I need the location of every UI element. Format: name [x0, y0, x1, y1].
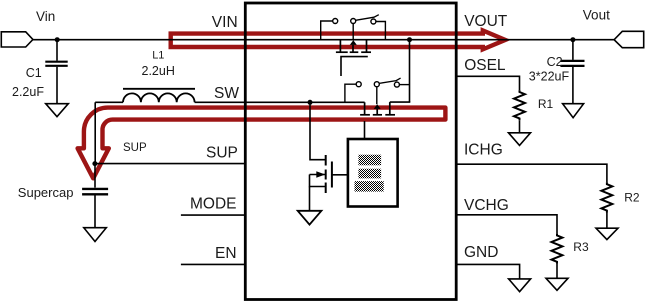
svg-text:3*22uF: 3*22uF: [529, 69, 570, 83]
svg-text:Vout: Vout: [583, 7, 610, 22]
svg-text:SUP: SUP: [123, 142, 147, 154]
svg-text:MODE: MODE: [190, 195, 237, 212]
svg-text:GND: GND: [464, 244, 498, 261]
svg-text:2.2uH: 2.2uH: [142, 64, 175, 78]
svg-text:SUP: SUP: [206, 145, 238, 162]
svg-text:ICHG: ICHG: [464, 141, 503, 158]
svg-text:R3: R3: [573, 240, 589, 254]
svg-text:L1: L1: [152, 50, 164, 62]
svg-text:R2: R2: [624, 191, 640, 205]
svg-text:OSEL: OSEL: [464, 57, 506, 74]
svg-text:2.2uF: 2.2uF: [12, 85, 44, 99]
svg-text:C1: C1: [26, 66, 42, 80]
svg-text:Vin: Vin: [36, 9, 55, 24]
svg-text:Supercap: Supercap: [18, 185, 74, 200]
svg-text:VCHG: VCHG: [464, 197, 509, 214]
svg-text:C2: C2: [547, 55, 563, 69]
svg-text:EN: EN: [215, 245, 237, 262]
svg-text:VOUT: VOUT: [464, 13, 508, 30]
svg-text:R1: R1: [538, 97, 554, 111]
svg-text:SW: SW: [214, 85, 239, 102]
svg-text:VIN: VIN: [212, 14, 238, 31]
